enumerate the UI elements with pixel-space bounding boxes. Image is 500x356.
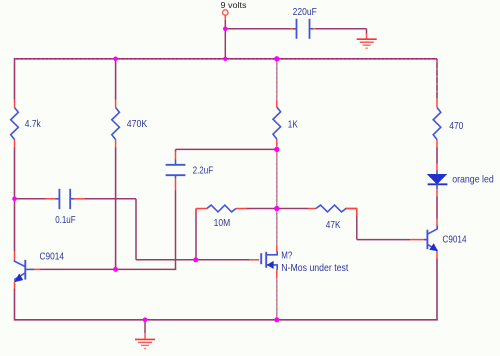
pin leads of M1 drain and source [276, 246, 278, 252]
capacitor C1 220uF (plates) [296, 19, 298, 39]
wire gate row junction to M1 gate [196, 259, 249, 261]
wire 2.2uF bottom column down [175, 191, 177, 270]
junction dot bottom bus / M1 source [274, 317, 279, 322]
wire 220uF capacitor to ground corner [316, 28, 367, 30]
wire 0.1uF row left [15, 198, 46, 200]
junction dot top bus / 470K [113, 57, 118, 62]
wire Q2 emitter to bottom bus [436, 259, 438, 320]
svg-text:220uF: 220uF [293, 6, 317, 18]
wire 470 bottom to LED [436, 148, 438, 164]
wire 2.2uF top lead [175, 149, 177, 152]
junction dot base row / 470K [113, 267, 118, 272]
wire bottom bus [15, 319, 438, 321]
junction dot top bus / 9V drop [223, 57, 227, 61]
LED D1 orange (triangle and cathode bar) [427, 174, 447, 184]
wire LED to Q2 collector [436, 197, 438, 219]
transistor Q1 C9014 (NPN, base right) [24, 260, 26, 280]
svg-text:10M: 10M [214, 217, 231, 229]
wire left rail junction to Q1 collector [14, 199, 16, 251]
wire 1K rail: top bus to 1K (dashed) [276, 59, 278, 101]
pin leads of C 2.2uF [175, 151, 177, 160]
pin leads of R 470K [115, 100, 117, 108]
pin leads of LED D1 [436, 164, 438, 171]
pin leads of R 470 [436, 100, 438, 108]
ground symbol bottom [135, 338, 155, 340]
wire gate row from corner to junction [136, 259, 196, 261]
svg-text:0.1uF: 0.1uF [55, 214, 75, 226]
wire right rail top segment (to 470) [436, 59, 438, 100]
svg-text:47K: 47K [326, 219, 341, 231]
pin leads of R 47K [308, 208, 316, 210]
wire 47K right to corner [346, 208, 357, 210]
wire 1K rail: 1K to 2.2uF junction (dashed) [276, 146, 278, 149]
svg-text:N-Mos under test: N-Mos under test [281, 262, 348, 274]
capacitor C2 0.1uF (plates) [58, 189, 60, 209]
wire 0.1uF row right to corner [85, 198, 136, 200]
wire corner down to gate row [135, 199, 137, 260]
resistor R1 4.7k [11, 108, 19, 140]
capacitor C3 2.2uF lead stubs [175, 160, 177, 165]
svg-text:C9014: C9014 [40, 251, 65, 263]
svg-text:470K: 470K [127, 118, 147, 130]
svg-text:4.7k: 4.7k [25, 118, 42, 130]
svg-text:470: 470 [449, 120, 463, 132]
pin leads of R 4.7k [14, 100, 16, 108]
pin leads of Q1 (collector, base, emitter) [14, 251, 16, 259]
pin leads of C 0.1uF [46, 198, 57, 200]
pin leads of R 10M [196, 208, 207, 210]
junction dot bottom bus / ground tap [143, 317, 148, 322]
junction dot gate row / 10M corner [193, 257, 198, 262]
wire Q2 base row [357, 239, 410, 241]
svg-text:9 volts: 9 volts [221, 0, 247, 10]
pin lead of M1 gate [249, 259, 259, 261]
capacitor C3 2.2uF (plates) [166, 164, 186, 166]
junction dot 9V corner [223, 27, 228, 32]
junction dot left rail / 0.1uF row [12, 197, 17, 202]
wire 2.2uF top row to 1K rail [176, 148, 277, 150]
wire base row from junction to 2.2uF corner [116, 268, 177, 270]
resistor R3 1K [273, 107, 281, 139]
wire 470K column top [115, 59, 117, 100]
pin leads of R 1K [276, 101, 278, 108]
wire 10M left corner down to gate junction [195, 209, 197, 260]
resistor R6 47K (horizontal) [316, 205, 346, 212]
pin leads of C 220uF [291, 28, 294, 30]
wire M1 source to bottom bus (dashed) [276, 278, 278, 320]
ground symbol top right [357, 38, 377, 40]
wire 9V to 220uF capacitor [225, 28, 290, 30]
wire base row from Q1 base to junction [40, 268, 116, 270]
svg-text:1K: 1K [288, 119, 298, 131]
resistor R2 470K [112, 108, 120, 140]
resistor R4 470 [433, 108, 441, 140]
wire left rail between 4.7k and junction [14, 148, 16, 199]
ground tap from bottom bus [144, 320, 146, 333]
svg-text:2.2uF: 2.2uF [193, 165, 214, 177]
svg-text:C9014: C9014 [443, 234, 467, 246]
wire left rail top segment [14, 58, 16, 100]
resistor R5 10M (horizontal) [207, 205, 236, 212]
svg-text:M?: M? [281, 250, 292, 262]
wire 1K rail: 10M junction down to M1 drain (dashed) [276, 209, 278, 247]
wire 470K column bottom to base row junction [115, 148, 117, 270]
pin leads of Q2 (collector, base, emitter) [436, 219, 438, 226]
wire left rail Q1 emitter to bottom bus [14, 289, 16, 321]
wire 47K row from junction [277, 208, 308, 210]
wire 9V supply drop to top bus [224, 20, 226, 59]
transistor Q2 C9014 (NPN, base left) [426, 230, 428, 250]
junction dot 1K rail / 10M row [274, 206, 279, 211]
wire 10M right to 1K rail junction [247, 208, 277, 210]
capacitor C2 0.1uF lead stubs [56, 198, 60, 200]
svg-text:orange led: orange led [452, 174, 494, 186]
junction dot 1K rail / 2.2uF row [274, 147, 279, 152]
junction dot top bus / 1K [274, 56, 279, 61]
wire corner down to Q2 base row [356, 209, 358, 240]
wire top bus from left rail to right rail (9V net, dashed highlight) [15, 58, 438, 60]
mosfet M1 N-MOS under test [260, 253, 262, 264]
wire 1K rail: 2.2uF junction to 10M junction (dashed) [276, 149, 278, 208]
9 volts supply terminal [223, 10, 228, 15]
capacitor C1 220uF lead stubs [293, 28, 297, 30]
